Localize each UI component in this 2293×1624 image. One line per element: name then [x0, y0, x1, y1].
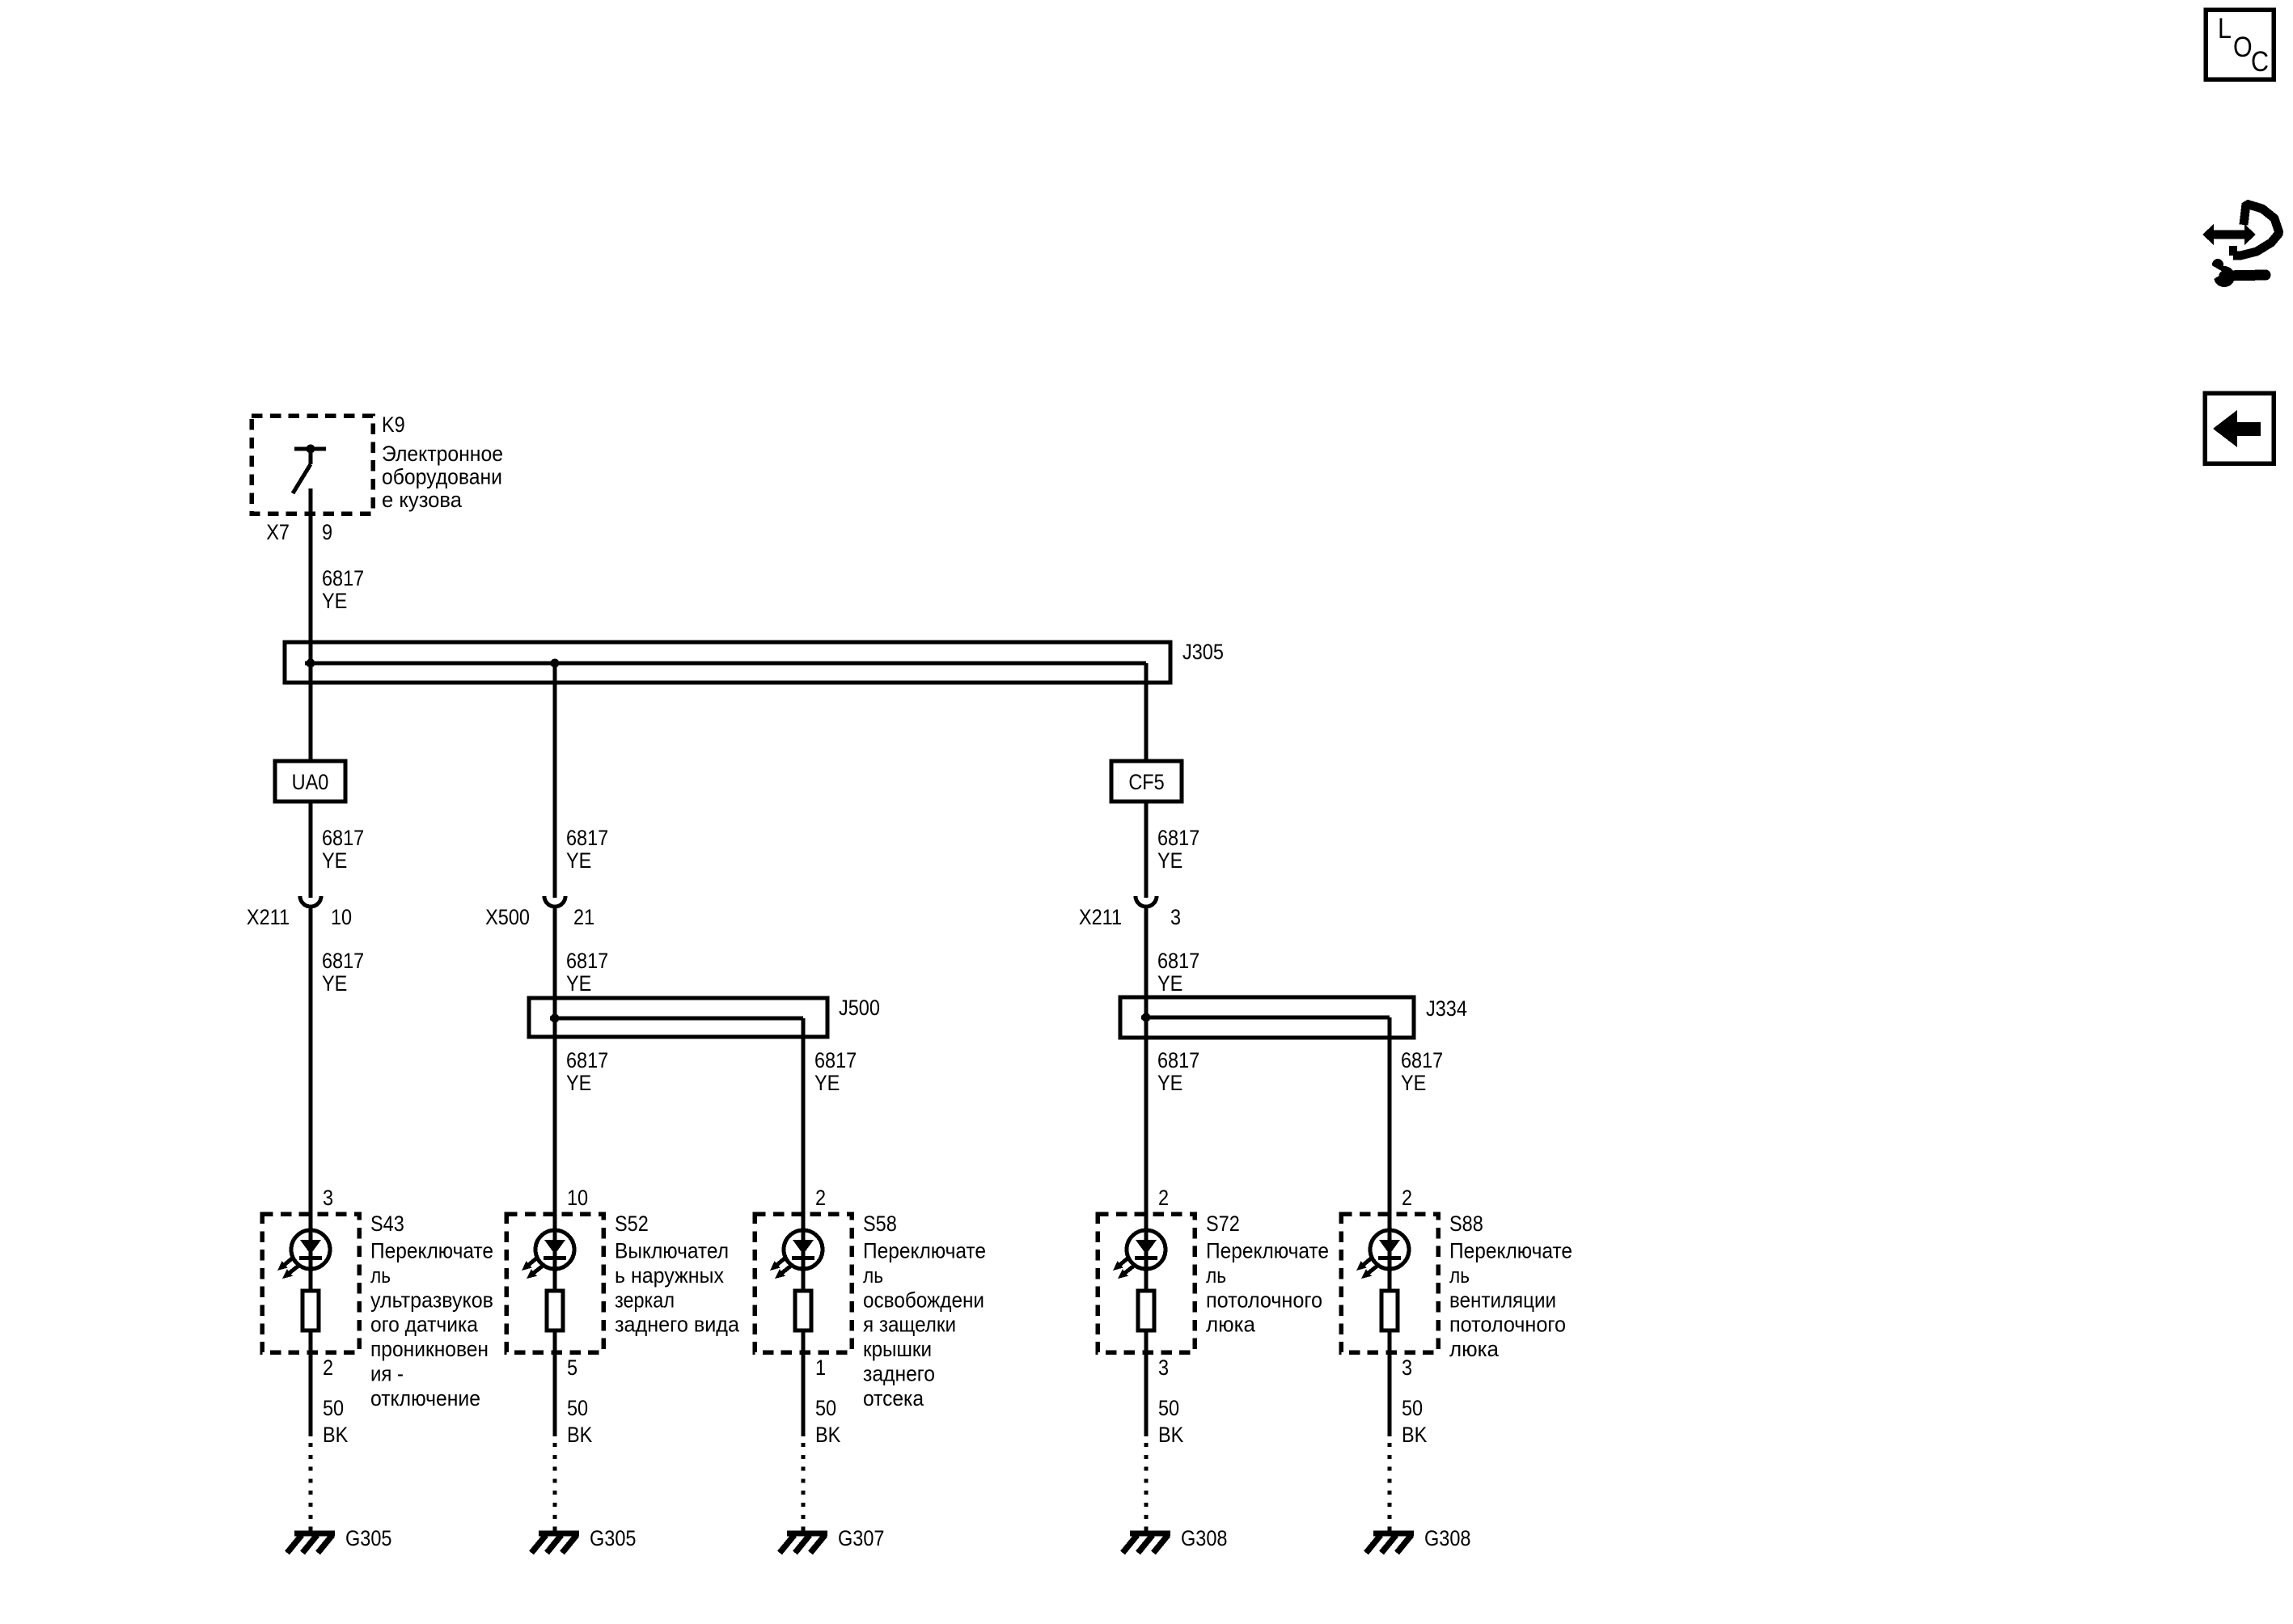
wire label 50 BK below S88	[1402, 1397, 1427, 1448]
wire label 6817 YE	[566, 1049, 608, 1096]
svg-text:6817: 6817	[566, 949, 608, 974]
switch S58 dashed box	[755, 1214, 852, 1352]
LOC legend icon box	[2206, 10, 2274, 79]
dotted ground wire below S88	[1388, 1443, 1392, 1531]
svg-text:BK: BK	[323, 1423, 348, 1448]
svg-text:BK: BK	[567, 1423, 592, 1448]
svg-text:2: 2	[1158, 1186, 1169, 1211]
wire from J305 to connector X500	[553, 663, 557, 898]
description text of S72	[1206, 1239, 1329, 1337]
ground symbol G308	[1366, 1533, 1414, 1553]
svg-text:G308: G308	[1181, 1527, 1227, 1551]
wire label 6817 YE	[1157, 827, 1199, 873]
svg-text:ль: ль	[370, 1263, 391, 1288]
wire from X500 to splice pack J500	[553, 907, 557, 1018]
svg-text:ль: ль	[1206, 1263, 1226, 1288]
svg-text:люка: люка	[1206, 1313, 1256, 1337]
label G305	[590, 1527, 636, 1551]
wire through switch S43	[309, 1214, 313, 1436]
wire label 6817 YE	[322, 949, 364, 996]
pin 2 of S43 (bottom)	[323, 1356, 333, 1381]
junction node at J305 branch 1	[307, 659, 315, 668]
wire from J305 to option box CF5	[1144, 663, 1149, 761]
svg-text:CF5: CF5	[1128, 771, 1164, 795]
svg-text:YE: YE	[566, 1072, 591, 1096]
svg-text:BK: BK	[1402, 1423, 1427, 1448]
svg-text:J334: J334	[1426, 997, 1467, 1021]
svg-text:6817: 6817	[1157, 949, 1199, 974]
splice bus line inside J500	[550, 1017, 803, 1021]
svg-text:S52: S52	[615, 1212, 649, 1237]
svg-text:Переключате: Переключате	[1449, 1239, 1572, 1263]
svg-text:отключение: отключение	[370, 1386, 480, 1410]
svg-text:6817: 6817	[322, 949, 364, 974]
svg-text:ль: ль	[863, 1263, 883, 1288]
connector label X500 pin 21	[485, 906, 594, 930]
svg-text:BK: BK	[815, 1423, 840, 1448]
svg-text:6817: 6817	[1157, 827, 1199, 851]
wire from CF5 to connector X211	[1144, 801, 1149, 898]
junction node in J500	[551, 1014, 560, 1023]
wire 6817 YE from K9 pin 9 to splice pack J305	[309, 488, 313, 663]
wire label 50 BK below S72	[1158, 1397, 1183, 1448]
svg-text:S58: S58	[863, 1212, 897, 1237]
wire from UA0 to connector X211	[309, 801, 313, 898]
pin 10 of S52	[567, 1186, 588, 1211]
label S88	[1449, 1212, 1483, 1237]
ground symbol G305	[287, 1533, 335, 1553]
connector X500 symbol	[544, 896, 565, 907]
pin 3 of S43	[323, 1186, 333, 1211]
svg-text:1: 1	[815, 1356, 826, 1381]
wire from J334 to switch S88	[1388, 1017, 1392, 1230]
switch S43 dashed box	[262, 1214, 359, 1352]
dotted ground wire below S58	[802, 1443, 806, 1531]
switch S72 dashed box	[1098, 1214, 1195, 1352]
svg-text:50: 50	[567, 1397, 588, 1421]
svg-text:G307: G307	[838, 1527, 884, 1551]
svg-text:G305: G305	[590, 1527, 636, 1551]
svg-text:потолочного: потолочного	[1449, 1313, 1566, 1337]
connector label X211 pin 10	[247, 906, 352, 930]
wire label 6817 YE	[322, 567, 364, 614]
svg-text:2: 2	[1402, 1186, 1412, 1211]
splice pack J500 outline	[529, 998, 827, 1037]
dotted ground wire below S72	[1144, 1443, 1149, 1531]
label Электронное оборудование кузова	[382, 442, 503, 512]
wire from X211 to splice pack J334	[1144, 907, 1149, 1017]
svg-text:ультразвуков: ультразвуков	[370, 1288, 493, 1312]
connector X211 (right) symbol	[1136, 896, 1157, 907]
svg-text:проникновен: проникновен	[370, 1337, 489, 1361]
svg-text:Электронное: Электронное	[382, 442, 503, 466]
dotted ground wire below S43	[309, 1443, 313, 1531]
svg-text:J500: J500	[839, 996, 880, 1021]
svg-text:10: 10	[331, 906, 352, 930]
wire label 6817 YE	[566, 949, 608, 996]
svg-text:50: 50	[1158, 1397, 1179, 1421]
ground symbol G308	[1123, 1533, 1170, 1553]
option box CF5	[1111, 761, 1182, 801]
junction node in J334	[1142, 1013, 1151, 1022]
svg-text:6817: 6817	[566, 1049, 608, 1073]
description text of S58	[863, 1239, 986, 1410]
description text of S52	[615, 1239, 740, 1337]
wire through switch S58	[802, 1214, 806, 1436]
splice pack J305 outline	[285, 642, 1170, 683]
ground symbol G305	[531, 1533, 579, 1553]
wire through switch S88	[1388, 1214, 1392, 1436]
connector label X211 pin 3	[1079, 906, 1181, 930]
resistor in S88	[1381, 1291, 1398, 1330]
label K9	[382, 413, 405, 438]
wire label 50 BK below S58	[815, 1397, 840, 1448]
svg-text:O: O	[2233, 31, 2253, 62]
svg-text:3: 3	[1402, 1356, 1412, 1381]
svg-text:YE: YE	[1157, 972, 1182, 996]
wire from J305 to option box UA0	[309, 663, 313, 761]
svg-text:YE: YE	[1157, 1072, 1182, 1096]
component K9 dashed box (Электронное оборудование кузова)	[252, 416, 373, 514]
LED indicator in S72	[1113, 1230, 1166, 1279]
label J305	[1182, 641, 1224, 665]
svg-text:YE: YE	[1401, 1072, 1426, 1096]
svg-text:YE: YE	[1157, 849, 1182, 873]
svg-text:BK: BK	[1158, 1423, 1183, 1448]
resistor in S58	[795, 1291, 811, 1330]
pin 3 of S88 (bottom)	[1402, 1356, 1412, 1381]
svg-text:6817: 6817	[322, 567, 364, 591]
label S43	[370, 1212, 404, 1237]
svg-text:S72: S72	[1206, 1212, 1240, 1237]
resistor in S52	[547, 1291, 563, 1330]
description text of S88	[1449, 1239, 1572, 1362]
svg-text:50: 50	[815, 1397, 836, 1421]
svg-text:6817: 6817	[1157, 1049, 1199, 1073]
wire label 6817 YE	[1401, 1049, 1443, 1096]
svg-text:C: C	[2251, 45, 2269, 77]
svg-text:YE: YE	[566, 849, 591, 873]
svg-text:2: 2	[323, 1356, 333, 1381]
wire label 6817 YE	[566, 827, 608, 873]
svg-text:вентиляции: вентиляции	[1449, 1288, 1556, 1312]
back navigation arrow icon	[2205, 393, 2274, 463]
svg-text:50: 50	[323, 1397, 344, 1421]
pin 1 of S58 (bottom)	[815, 1356, 826, 1381]
resistor in S43	[302, 1291, 319, 1330]
svg-text:освобождени: освобождени	[863, 1288, 984, 1312]
label S52	[615, 1212, 649, 1237]
svg-text:YE: YE	[322, 972, 347, 996]
svg-text:S88: S88	[1449, 1212, 1483, 1237]
svg-text:J305: J305	[1182, 641, 1224, 665]
svg-text:е кузова: е кузова	[382, 488, 463, 512]
svg-text:X211: X211	[247, 906, 290, 930]
splice bus line inside J334	[1141, 1016, 1390, 1020]
svg-text:YE: YE	[566, 972, 591, 996]
svg-text:3: 3	[1170, 906, 1181, 930]
ground symbol G307	[780, 1533, 827, 1553]
dotted ground wire below S52	[553, 1443, 557, 1531]
diagnostic arrows-and-wrench icon	[2202, 204, 2279, 287]
label G307	[838, 1527, 884, 1551]
svg-text:ль: ль	[1449, 1263, 1470, 1288]
junction node at J305 branch 2	[551, 659, 560, 668]
wire from J500 to switch S58	[802, 1018, 806, 1230]
svg-text:оборудовани: оборудовани	[382, 465, 502, 489]
LED indicator in S43	[277, 1230, 330, 1279]
svg-text:YE: YE	[322, 590, 347, 614]
svg-text:люка: люка	[1449, 1337, 1500, 1361]
svg-text:5: 5	[567, 1356, 577, 1381]
svg-text:2: 2	[815, 1186, 826, 1211]
option box UA0	[275, 761, 345, 801]
svg-text:UA0: UA0	[292, 771, 329, 795]
switch contact inside K9	[293, 445, 326, 494]
pin 2 of S88	[1402, 1186, 1412, 1211]
svg-text:6817: 6817	[566, 827, 608, 851]
svg-text:Переключате: Переключате	[1206, 1239, 1329, 1263]
label J500	[839, 996, 880, 1021]
wire label 6817 YE	[1157, 949, 1199, 996]
splice pack J334 outline	[1120, 997, 1414, 1038]
svg-text:Переключате: Переключате	[370, 1239, 493, 1263]
label G308	[1424, 1527, 1470, 1551]
LED indicator in S58	[770, 1230, 823, 1279]
svg-text:отсека: отсека	[863, 1386, 924, 1410]
svg-text:G305: G305	[345, 1527, 391, 1551]
svg-text:9: 9	[322, 521, 332, 545]
wire label 6817 YE	[814, 1049, 857, 1096]
wire label 50 BK below S52	[567, 1397, 592, 1448]
svg-text:зеркал: зеркал	[615, 1288, 675, 1312]
svg-text:Выключател: Выключател	[615, 1239, 729, 1263]
svg-text:ия -: ия -	[370, 1362, 404, 1386]
svg-text:заднего вида: заднего вида	[615, 1313, 740, 1337]
svg-text:я защелки: я защелки	[863, 1313, 956, 1337]
svg-text:3: 3	[1158, 1356, 1169, 1381]
label J334	[1426, 997, 1467, 1021]
wire label 50 BK below S43	[323, 1397, 348, 1448]
connector label X7 pin 9	[266, 521, 332, 545]
connector X211 symbol	[300, 896, 321, 907]
wire from X211 to switch S43	[309, 907, 313, 1230]
svg-text:потолочного: потолочного	[1206, 1288, 1322, 1312]
svg-text:YE: YE	[322, 849, 347, 873]
svg-text:ого датчика: ого датчика	[370, 1313, 479, 1337]
label S72	[1206, 1212, 1240, 1237]
wire through switch S72	[1144, 1214, 1149, 1436]
LED indicator in S52	[522, 1230, 574, 1279]
svg-text:ь наружных: ь наружных	[615, 1263, 724, 1288]
svg-text:X7: X7	[266, 521, 290, 545]
svg-text:X500: X500	[485, 906, 530, 930]
pin 5 of S52 (bottom)	[567, 1356, 577, 1381]
pin 3 of S72 (bottom)	[1158, 1356, 1169, 1381]
splice bus line inside J305	[305, 662, 1146, 666]
description text of S43	[370, 1239, 493, 1410]
wire through switch S52	[553, 1214, 557, 1436]
svg-text:6817: 6817	[1401, 1049, 1443, 1073]
label G308	[1181, 1527, 1227, 1551]
svg-text:3: 3	[323, 1186, 333, 1211]
svg-text:заднего: заднего	[863, 1362, 935, 1386]
wire label 6817 YE	[322, 827, 364, 873]
label G305	[345, 1527, 391, 1551]
svg-text:YE: YE	[814, 1072, 840, 1096]
wire label 6817 YE	[1157, 1049, 1199, 1096]
svg-text:10: 10	[567, 1186, 588, 1211]
LED indicator in S88	[1356, 1230, 1409, 1279]
wire from J500 to switch S52	[553, 1018, 557, 1230]
pin 2 of S72	[1158, 1186, 1169, 1211]
pin 2 of S58	[815, 1186, 826, 1211]
svg-text:6817: 6817	[322, 827, 364, 851]
label S58	[863, 1212, 897, 1237]
svg-text:21: 21	[573, 906, 594, 930]
svg-text:K9: K9	[382, 413, 405, 438]
wire from J334 to switch S72	[1144, 1017, 1149, 1230]
switch S88 dashed box	[1341, 1214, 1438, 1352]
svg-text:6817: 6817	[814, 1049, 857, 1073]
switch S52 dashed box	[506, 1214, 603, 1352]
svg-text:L: L	[2218, 12, 2232, 44]
svg-text:S43: S43	[370, 1212, 404, 1237]
resistor in S72	[1138, 1291, 1154, 1330]
svg-text:крышки: крышки	[863, 1337, 932, 1361]
svg-text:50: 50	[1402, 1397, 1423, 1421]
svg-text:X211: X211	[1079, 906, 1122, 930]
svg-text:Переключате: Переключате	[863, 1239, 986, 1263]
svg-text:G308: G308	[1424, 1527, 1470, 1551]
